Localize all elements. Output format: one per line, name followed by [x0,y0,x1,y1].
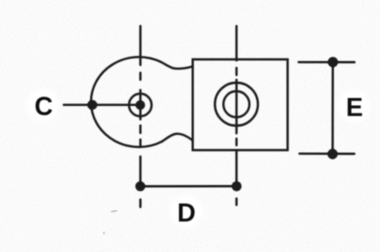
top ogee transition [161,62,193,69]
dimension E bottom tick [300,152,355,154]
centerline right: top solid segment [235,26,237,61]
centerline right: dash [235,68,237,75]
centerline right: crosshair solid through bore [235,80,237,134]
svg-text:D: D [177,199,195,227]
svg-text:E: E [346,94,363,122]
dot E top [328,57,338,67]
centerline left: top solid segment [139,26,141,65]
centerline left: crosshair solid through pivot [139,90,141,119]
boss circle (left ball) [91,57,162,147]
centerline left: dash [139,73,141,80]
dot E bottom [327,149,337,159]
centerline left: extension to D [139,157,141,187]
svg-text:C: C [34,93,52,121]
bottom ogee transition [162,134,193,142]
centerline right: extension to D [235,150,237,186]
pivot small circle [129,94,152,117]
faint scan artifact near D [111,211,117,213]
dot at pivot center (C) [136,100,146,110]
label halo E [335,87,373,125]
centerline left: dash crossing arc [139,140,141,148]
dimension line C [64,104,141,106]
dimension line E vertical [331,62,333,154]
dimension E top tick [299,61,355,63]
centerline right: dash [235,139,237,146]
socket bore inner circle [223,91,249,117]
dot on boss left edge (C) [87,100,97,110]
faint scan speck lower left [103,232,105,234]
label halo D [167,192,205,230]
centerline left: dash [139,126,141,134]
dimension line D [140,185,236,187]
dot D left [135,181,145,191]
centerline right: dash below D dot [235,199,237,206]
label halo C [24,86,62,124]
socket bore outer circle [215,83,258,126]
centerline left: dash below D dot [139,200,141,208]
dot D right [232,181,242,191]
socket body rectangle [193,59,288,150]
